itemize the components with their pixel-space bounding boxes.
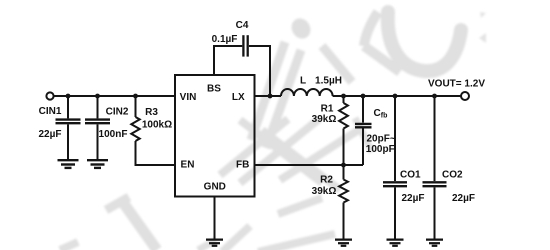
svg-text:0.1µF: 0.1µF [212,34,238,45]
ground CIN1 [58,160,79,168]
wire FB [255,164,364,166]
svg-text:R1: R1 [321,103,334,114]
node LX-C4 [268,94,273,99]
capacitor CIN2 [85,96,110,159]
svg-text:39kΩ: 39kΩ [312,114,337,125]
node out-R1 [341,94,346,99]
svg-text:C4: C4 [236,20,249,31]
capacitor CO2 [423,96,447,239]
svg-text:22µF: 22µF [402,193,425,204]
node out-CO2 [432,94,437,99]
capacitor Cfb [355,96,372,165]
svg-text:L: L [300,76,306,87]
ground R2 [335,240,352,246]
wire LX [255,95,282,97]
svg-text:R2: R2 [320,175,333,186]
svg-text:20pF~: 20pF~ [367,134,396,145]
svg-text:CIN1: CIN1 [39,106,62,117]
svg-text:FB: FB [236,160,249,171]
output terminal [461,92,469,100]
wm mid-bottom diagonals [198,240,216,250]
node rail-CIN1 [66,94,71,99]
wire input rail [54,95,175,97]
svg-text:VOUT= 1.2V: VOUT= 1.2V [428,79,485,90]
wm bottom-left serif stroke [122,201,157,250]
svg-text:22µF: 22µF [39,129,62,140]
capacitor C4 [242,35,244,56]
wire GND pin [214,197,216,239]
wm steep strokes [251,42,285,140]
svg-text:39kΩ: 39kΩ [312,186,337,197]
svg-text:CO1: CO1 [400,169,421,180]
resistor R3 [131,96,175,165]
wm shallow strokes [220,119,288,175]
node rail-R3 [133,94,138,99]
ground CO2 [426,240,443,246]
svg-text:LX: LX [232,92,245,103]
op-amp U1 (regulator IC body) [175,75,255,197]
svg-text:CO2: CO2 [442,169,463,180]
wm i-dot [288,15,314,42]
wm big C [388,12,461,71]
svg-text:Cfb: Cfb [374,108,388,120]
junction dots [66,94,437,168]
svg-text:CIN2: CIN2 [106,107,129,118]
svg-text:R3: R3 [145,107,158,118]
svg-text:GND: GND [204,182,226,193]
capacitor CIN1 [56,96,81,159]
wire output rail [333,95,461,97]
svg-text:VIN: VIN [180,92,197,103]
svg-text:100kΩ: 100kΩ [142,120,172,131]
ground CIN2 [87,160,108,168]
svg-text:1.5µH: 1.5µH [315,76,342,87]
input terminal [46,92,53,99]
circuit layer [46,35,469,246]
svg-text:100pF: 100pF [366,144,395,155]
svg-text:BS: BS [207,84,221,95]
inductor L [281,89,333,96]
watermark layer [60,12,486,250]
node out-Cfb [361,94,366,99]
wm upper-right small diagonals [364,12,378,46]
svg-text:22µF: 22µF [452,193,475,204]
node out-CO1 [393,94,398,99]
node rail-CIN2 [95,94,100,99]
wm backslash strokes [240,120,322,183]
wire C4 to LX node [249,46,270,96]
capacitor CO1 [383,96,407,239]
ground IC [206,240,223,246]
svg-text:100nF: 100nF [99,129,128,140]
wire BS loop [214,46,242,75]
resistor R1 [339,96,348,165]
node FB-R1R2 [341,163,346,168]
resistor R2 [339,165,348,239]
svg-text:EN: EN [181,160,195,171]
ground CO1 [387,240,404,246]
